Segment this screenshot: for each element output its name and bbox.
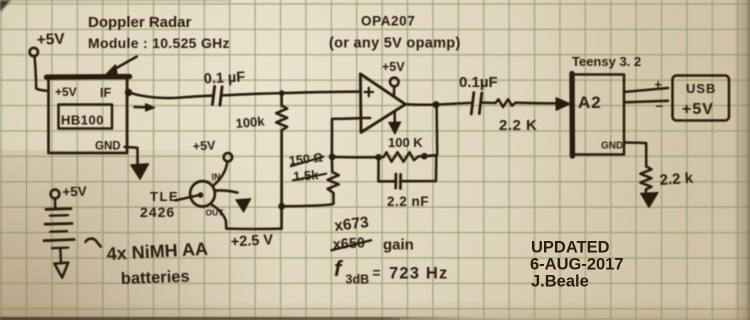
- wire cap branch left: [378, 157, 394, 181]
- wire Teensy - to USB: [624, 101, 668, 103]
- squiggle pointer to battery: [86, 239, 101, 247]
- wire output node down to feedback: [435, 105, 438, 156]
- wire IF to cap C1: [132, 93, 212, 98]
- capacitor C3 2.2nF: [394, 174, 397, 188]
- printed annotation UPDATED: [530, 239, 624, 291]
- svg-text:(or any 5V opamp): (or any 5V opamp): [329, 36, 461, 52]
- Teensy heavy left edge: [569, 74, 575, 157]
- wire opamp output: [406, 103, 471, 105]
- node output: [433, 102, 439, 108]
- strike through 150: [290, 157, 324, 167]
- wire TLE common to ground: [215, 190, 238, 192]
- battery B1 plates: [46, 207, 71, 210]
- svg-text:IN: IN: [212, 172, 221, 182]
- opamp U1 OPA207 triangle: [360, 74, 405, 132]
- svg-text:USB: USB: [686, 81, 716, 96]
- wire C2 to R4: [482, 101, 496, 104]
- svg-text:batteries: batteries: [121, 268, 190, 288]
- svg-text:+5V: +5V: [382, 60, 405, 74]
- ground arrow below HB100 GND: [125, 147, 138, 165]
- svg-text:IF: IF: [100, 86, 111, 100]
- node R2 bottom junction: [279, 203, 285, 209]
- svg-text:HB100: HB100: [61, 113, 104, 128]
- battery +5V terminal: [51, 190, 60, 199]
- svg-text:Teensy 3. 2: Teensy 3. 2: [572, 54, 641, 69]
- svg-text:x650: x650: [332, 235, 365, 253]
- svg-text:2.2 K: 2.2 K: [499, 117, 537, 134]
- TLE2426 center dot: [198, 193, 203, 198]
- svg-text:0.1µF: 0.1µF: [459, 74, 498, 91]
- wire +5V to TLE IN: [214, 162, 227, 186]
- svg-text:OPA207: OPA207: [361, 14, 415, 29]
- wire junction to feedback: [332, 156, 378, 159]
- svg-text:UPDATED: UPDATED: [531, 239, 610, 257]
- ground arrow open below battery: [54, 263, 68, 278]
- svg-text:=: =: [373, 266, 381, 281]
- +5V terminal for TLE: [224, 153, 232, 161]
- USB +5V box: [673, 76, 730, 121]
- svg-text:100k: 100k: [235, 113, 266, 131]
- svg-text:+5V: +5V: [682, 101, 714, 118]
- resistor R3 100K feedback (horizontal): [379, 152, 437, 161]
- resistor R1 100k (bias, vertical): [276, 93, 287, 206]
- node feedback left: [376, 155, 382, 161]
- svg-text:3dB: 3dB: [346, 273, 370, 287]
- wire Teensy + to USB: [624, 88, 668, 92]
- svg-text:−: −: [656, 99, 664, 114]
- IF pin dot: [126, 90, 132, 96]
- opamp + symbol: [365, 88, 373, 96]
- opamp - symbol: [363, 117, 371, 120]
- wire opamp - input: [332, 118, 361, 157]
- text layer: [36, 14, 716, 288]
- capacitor C2 0.1uF output: [471, 93, 474, 114]
- strike through 1.5k: [292, 174, 327, 181]
- svg-text:0.1 µF: 0.1 µF: [203, 69, 245, 87]
- svg-text:OUT: OUT: [206, 208, 225, 218]
- HB100 module box: [49, 78, 128, 153]
- svg-text:+5V: +5V: [55, 85, 77, 99]
- svg-text:GND: GND: [95, 141, 121, 153]
- svg-text:J.Beale: J.Beale: [531, 273, 589, 291]
- node minus/feedback junction: [329, 154, 335, 160]
- resistor R4 2.2K inline: [496, 99, 516, 107]
- wire R4 to Teensy A2: [516, 101, 557, 104]
- wire +5V to opamp top: [393, 86, 396, 95]
- resistor R5 2.2k (vertical): [640, 166, 651, 194]
- wire +2.5V rail: [226, 227, 281, 230]
- wire Teensy GND down: [624, 143, 646, 167]
- pointer line TLE label: [176, 195, 199, 200]
- svg-text:+2.5 V: +2.5 V: [230, 232, 273, 250]
- opamp +5V terminal: [390, 78, 399, 87]
- strike through x650: [331, 240, 373, 251]
- node feedback right: [422, 153, 428, 159]
- wire terminal to battery: [54, 199, 57, 209]
- svg-text:Module : 10.525 GHz: Module : 10.525 GHz: [88, 35, 230, 51]
- svg-text:6-AUG-2017: 6-AUG-2017: [530, 256, 624, 274]
- svg-text:+5V: +5V: [62, 184, 87, 200]
- HB100 heavy top edge: [47, 74, 130, 80]
- Teensy 3.2 box: [572, 75, 624, 155]
- svg-text:gain: gain: [383, 237, 414, 254]
- svg-text:2.2 k: 2.2 k: [659, 170, 694, 189]
- arrow Doppler label to box: [112, 57, 137, 71]
- svg-text:Doppler Radar: Doppler Radar: [88, 14, 192, 31]
- wire C1 to opamp + input: [223, 92, 361, 96]
- node bias junction: [280, 91, 285, 96]
- svg-text:100 K: 100 K: [388, 135, 423, 150]
- svg-text:+: +: [655, 78, 662, 92]
- svg-text:TLE: TLE: [150, 189, 179, 204]
- svg-text:+5V: +5V: [36, 31, 66, 49]
- capacitor C1 0.1uF: [212, 87, 214, 105]
- wire TLE OUT to +2.5V rail: [212, 205, 227, 229]
- opamp V- ground arrow: [393, 112, 396, 124]
- wire battery to ground: [59, 248, 62, 263]
- wire cap branch right: [402, 156, 436, 181]
- svg-text:723 Hz: 723 Hz: [389, 265, 448, 283]
- TLE2426 U2 circle: [190, 181, 215, 206]
- HB100 inner label box: [59, 105, 113, 129]
- wire R1 bottom to +2.5V rail: [280, 206, 283, 228]
- svg-text:2.2 nF: 2.2 nF: [387, 194, 429, 209]
- signal direction arrow: [135, 106, 148, 109]
- node +5V terminal (top-left): [30, 48, 38, 56]
- svg-text:+5V: +5V: [192, 138, 216, 153]
- wire +5V to HB100: [35, 56, 49, 90]
- svg-text:2426: 2426: [140, 204, 175, 220]
- ground arrow below R5: [641, 192, 659, 207]
- svg-text:GND: GND: [601, 141, 623, 152]
- resistor R2 1.5k (vertical): [282, 157, 339, 206]
- svg-text:A2: A2: [578, 93, 602, 112]
